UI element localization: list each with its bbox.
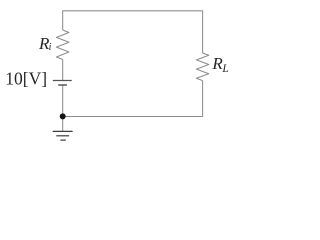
svg-text:i: i	[49, 42, 52, 53]
svg-text:L: L	[221, 63, 228, 75]
svg-text:10[V]: 10[V]	[5, 68, 47, 88]
